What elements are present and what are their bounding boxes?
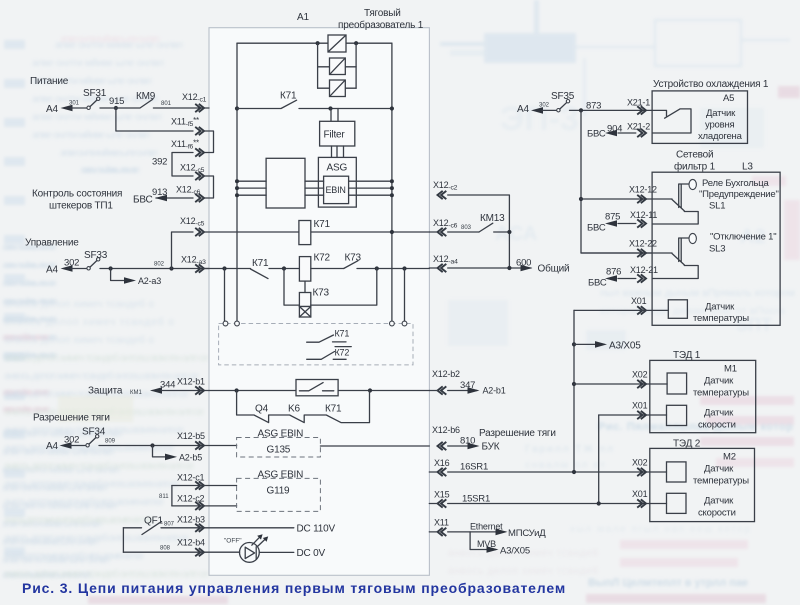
svg-text:Датчик: Датчик	[704, 376, 734, 387]
circuit breaker SF34	[70, 427, 106, 447]
circuit breaker SF33	[84, 250, 108, 270]
label Контроль состояния штекеров ТП1	[32, 189, 153, 212]
wire X15 to TED2 X01	[429, 503, 666, 505]
contactor KM13	[479, 213, 509, 232]
svg-text:анвось делоп химеч тсандеб онт: анвось делоп химеч тсандеб онтсеш вом ге…	[4, 496, 164, 508]
svg-text:Filter: Filter	[324, 130, 346, 141]
junction TED1 X02 tap	[572, 382, 576, 386]
svg-text:X12-b4: X12-b4	[177, 538, 205, 548]
svg-text:600: 600	[516, 258, 531, 269]
svg-text:X01: X01	[632, 489, 648, 499]
svg-text:X12-b5: X12-b5	[177, 431, 205, 441]
svg-text:КМ1: КМ1	[130, 390, 142, 396]
svg-text:873: 873	[586, 101, 601, 112]
junction X16 feed	[572, 470, 576, 474]
svg-text:G135: G135	[267, 445, 291, 456]
svg-text:А4: А4	[46, 441, 58, 452]
svg-text:X16: X16	[434, 458, 450, 468]
svg-text:анвось делоп химеч тсандеб о: анвось делоп химеч тсандеб о	[4, 316, 174, 328]
svg-text:Датчик: Датчик	[704, 464, 734, 475]
line filter box L3	[652, 172, 780, 325]
svg-text:КМ13: КМ13	[480, 213, 505, 224]
bus line 1	[235, 179, 394, 183]
svg-text:анвось делоп химеч тсандеб: анвось делоп химеч тсандеб	[448, 565, 598, 577]
svg-text:ASG EBIN: ASG EBIN	[258, 470, 304, 481]
connector pin X01 (TED1)	[632, 401, 648, 420]
junction right of K73	[375, 266, 379, 270]
svg-text:X21-1: X21-1	[627, 98, 650, 108]
junction K71 wire right	[390, 106, 394, 110]
svg-text:811: 811	[159, 494, 169, 500]
wire to TED1 X02	[574, 383, 667, 385]
svg-text:БВС: БВС	[133, 195, 153, 206]
svg-text:X11: X11	[434, 518, 449, 528]
filter to ASG wires	[332, 146, 344, 157]
connector pin X12-12	[629, 185, 657, 204]
wire tap to X12-12	[581, 198, 652, 200]
wire X11 Ethernet to МПСУиД	[429, 522, 546, 540]
ASG box	[318, 157, 356, 207]
wire KM9 to X12-c1 with wire number 801	[153, 101, 209, 108]
svg-text:A2-b5: A2-b5	[179, 453, 202, 463]
svg-text:K6: K6	[288, 404, 300, 415]
svg-text:анвось делоп химеч тсандеб онт: анвось делоп химеч тсандеб онтсеш вом ге…	[4, 532, 189, 544]
junction common wire	[507, 266, 511, 270]
relay coil K71	[204, 219, 429, 245]
svg-text:К71: К71	[314, 219, 331, 230]
junction for A2-a3 branch	[109, 266, 113, 270]
branch MVB to A3/X05	[470, 532, 530, 557]
converter module 3	[318, 80, 357, 97]
svg-text:А4: А4	[517, 104, 529, 115]
connector pin X12-c6	[176, 185, 204, 203]
relay coil K73 with rectifier	[299, 288, 329, 318]
svg-text:К71: К71	[325, 404, 342, 415]
auxiliary contact K72 (NC)	[307, 347, 352, 360]
svg-text:X15: X15	[434, 490, 450, 500]
svg-text:БУК: БУК	[482, 442, 500, 453]
wire SF35 to X21-1 with 873	[570, 101, 653, 112]
arrow 600 Общий	[516, 258, 569, 275]
svg-text:апве онлти мйиве ыле онлвп: апве онлти мйиве ыле онлвп	[32, 57, 164, 69]
svg-text:А4: А4	[46, 265, 58, 276]
svg-text:К73: К73	[345, 253, 362, 264]
svg-text:Сетевой: Сетевой	[676, 150, 713, 161]
title: Тяговый преобразователь 1	[338, 8, 424, 31]
branch arrow A2-b5	[153, 446, 203, 463]
svg-text:Датчик: Датчик	[706, 108, 736, 119]
svg-text:анвось делоп химеч тсандеб о: анвось делоп химеч тсандеб о	[4, 298, 154, 310]
svg-text:Управление: Управление	[25, 238, 79, 249]
svg-text:"Предупреждение": "Предупреждение"	[699, 189, 779, 200]
junction control wire left drop	[222, 266, 226, 270]
svg-text:X12-11: X12-11	[630, 210, 657, 220]
svg-text:преобразователь 1: преобразователь 1	[338, 19, 424, 31]
wire K72 to K73 contact	[311, 268, 344, 270]
connector pin X12-22	[629, 239, 657, 258]
branch arrow A3/X05	[572, 341, 641, 352]
wire X12-c1 into G119	[172, 485, 237, 487]
svg-text:А5: А5	[723, 93, 734, 104]
svg-text:QF1: QF1	[144, 516, 163, 527]
connector pin X12-c2 (right)	[433, 180, 458, 199]
svg-text:апве онлти мйиве ыле онлвп: апве онлти мйиве ыле онлвп	[80, 164, 140, 176]
svg-text:SF33: SF33	[84, 250, 108, 261]
svg-text:А3/X05: А3/X05	[609, 341, 641, 352]
connector pin X21-1	[627, 98, 650, 115]
circuit breaker QF1	[123, 516, 174, 535]
svg-text:Рис. 3. Цепи питания управлени: Рис. 3. Цепи питания управления первым т…	[22, 580, 566, 596]
wire G135 to X12-b6	[320, 445, 429, 447]
junction for A2-b5 branch	[150, 443, 154, 447]
svg-text:пыл важным дыным вПрямаль кото: пыл важным дыным вПрямаль котором	[600, 287, 795, 299]
svg-text:апве онлти мйиве ыле онлвп: апве онлти мйиве ыле онлвп	[60, 33, 160, 45]
connector pin X12-c5	[180, 163, 205, 181]
branch up to coil wire X12-c5	[172, 232, 194, 269]
svg-text:X12-b6: X12-b6	[432, 425, 460, 435]
svg-text:снвалм пл ет: снвалм пл ет	[525, 459, 605, 471]
contact K71 (control)	[251, 258, 300, 279]
svg-text:302: 302	[539, 103, 550, 109]
circuit breaker SF35	[542, 91, 575, 112]
wire X12-c2 into G119	[172, 505, 237, 507]
traction motor box TED1	[650, 360, 756, 432]
main drop from SF35	[581, 110, 652, 253]
connector pin X12-11 with 875	[605, 210, 657, 228]
connector pin X02 (TED1)	[632, 370, 648, 389]
svg-text:302: 302	[64, 435, 79, 446]
junction KM13 corner	[507, 230, 511, 234]
svg-text:КМ9: КМ9	[136, 91, 156, 102]
contactor KM9	[100, 91, 156, 108]
link K72 coil to K73 coil	[304, 281, 306, 292]
bypass chain Q4 K6 K71	[237, 391, 370, 423]
wire X12-11 to BVS	[587, 220, 636, 233]
connector pin X12-b6 with 810 to БУК	[432, 425, 556, 453]
svg-text:802: 802	[154, 262, 165, 268]
svg-text:анвось делоп химеч тсандеб онт: анвось делоп химеч тсандеб онтсеш вом ге…	[4, 352, 209, 364]
svg-text:К71: К71	[335, 329, 350, 339]
wire to TED1 X01	[599, 414, 667, 416]
svg-text:807: 807	[164, 522, 175, 528]
junction left of bridge	[316, 41, 320, 45]
converter module 1	[328, 35, 346, 52]
svg-text:X12-22: X12-22	[629, 239, 657, 249]
svg-text:16SR1: 16SR1	[460, 462, 488, 473]
Buchholz relay SL1 warning	[652, 178, 779, 224]
svg-text:Тяговый: Тяговый	[364, 8, 401, 19]
svg-text:К71: К71	[280, 91, 297, 102]
coolant level sensor contact	[652, 109, 691, 133]
EBIN box	[324, 176, 349, 203]
wire f6 to X12-c5 with number 392	[152, 153, 193, 177]
connector pin X12-c1 (G119)	[177, 473, 205, 490]
inner left bus vertical	[236, 43, 238, 321]
svg-text:Разрешение тяги: Разрешение тяги	[479, 428, 556, 439]
svg-text:SF31: SF31	[83, 88, 107, 99]
svg-text:анвось делоп химеч тсандеб о: анвось делоп химеч тсандеб о	[4, 334, 154, 346]
svg-text:температуры: температуры	[693, 388, 749, 399]
wire X12-b4 to LED	[123, 551, 239, 553]
svg-text:915: 915	[109, 96, 124, 107]
svg-text:X12-12: X12-12	[629, 185, 657, 195]
junction right of bridge	[354, 41, 358, 45]
label A1	[297, 12, 309, 23]
contact K73	[344, 253, 430, 269]
svg-text:фильтр 1: фильтр 1	[674, 161, 716, 173]
connector pin X12-21 with 876	[606, 265, 658, 283]
svg-text:температуры: температуры	[693, 313, 749, 324]
wire A4 to SF33	[71, 268, 87, 270]
svg-text:хыл мале пгыл нап ееш котор: хыл мале пгыл нап ееш котор	[570, 524, 750, 535]
connector pin X15 with 15SR1	[434, 490, 490, 508]
svg-text:БВС: БВС	[587, 223, 606, 234]
svg-text:801: 801	[161, 101, 172, 107]
junction filter feed	[328, 106, 332, 110]
connector pin X12-b2 with 347 to A2-b1	[429, 369, 505, 396]
svg-text:X12-21: X12-21	[630, 265, 658, 275]
terminal circles on dashed box	[223, 321, 407, 326]
svg-text:ВыпЛ Целмтеплт в утрлл пае: ВыпЛ Целмтеплт в утрлл пае	[588, 577, 748, 589]
svg-text:скорости: скорости	[698, 508, 736, 519]
filter feed wires	[331, 109, 338, 122]
wire X12-a4 to Общий	[429, 267, 531, 269]
svg-text:876: 876	[606, 267, 621, 278]
power interface box	[266, 158, 305, 208]
svg-text:A2-a3: A2-a3	[138, 276, 161, 286]
svg-text:апве онлти мйиве ыле онлвп: апве онлти мйиве ыле онлвп	[60, 147, 158, 159]
Buchholz relay SL3 off	[652, 232, 776, 279]
svg-text:ТЭД 1: ТЭД 1	[673, 350, 701, 361]
node A4 (cooling feed)	[517, 103, 550, 116]
svg-text:анвось делоп химеч тсандеб онт: анвось делоп химеч тсандеб онтсеш вом ге…	[4, 460, 194, 472]
connector pin X01 (filter)	[631, 296, 647, 315]
svg-text:EBIN: EBIN	[326, 185, 346, 195]
svg-text:X12-b3: X12-b3	[177, 515, 205, 525]
parallel branch around K73 coil	[284, 269, 377, 306]
svg-text:347: 347	[460, 380, 475, 391]
svg-text:810: 810	[460, 436, 475, 447]
svg-text:X02: X02	[632, 370, 648, 380]
junction for coil-wire branch	[169, 266, 173, 270]
connector pin X12-a4 (right)	[433, 254, 458, 272]
svg-text:MVB: MVB	[477, 539, 496, 549]
label Управление	[25, 238, 79, 249]
junction b1 left	[235, 388, 239, 392]
arrow Защита and wire number 344	[150, 380, 209, 394]
connector pin X12-c1	[182, 92, 207, 112]
svg-text:"OFF": "OFF"	[224, 538, 242, 545]
temperature sensor box (filter)	[668, 300, 749, 324]
speed sensor TED1	[667, 405, 736, 430]
wire X12-c2 to corner	[448, 195, 510, 268]
junction cooling feed	[579, 108, 583, 112]
svg-text:G119: G119	[267, 486, 291, 497]
svg-text:Питание: Питание	[30, 76, 69, 87]
svg-text:М2: М2	[723, 452, 736, 463]
wire X01 to temperature sensor	[574, 309, 668, 311]
svg-text:SL1: SL1	[709, 201, 725, 212]
label ТЭД 1	[673, 350, 701, 361]
connector pin X12-b4 with number 808	[160, 538, 205, 557]
traction motor box TED2	[650, 448, 755, 521]
svg-text:803: 803	[461, 225, 472, 231]
svg-text:X12-b2: X12-b2	[432, 369, 460, 379]
junction b1 right	[368, 388, 372, 392]
connector pin X21-2 with 904	[607, 122, 650, 138]
auxiliary contact K71	[307, 329, 350, 343]
indicator LED OFF	[224, 534, 268, 562]
junction X12-12 tap	[579, 197, 583, 201]
wire SF33 to X12-a3 with number 802	[100, 262, 209, 269]
connector pin X01 (TED2)	[632, 489, 648, 508]
svg-text:К72: К72	[314, 253, 331, 264]
traction converter block A1	[209, 28, 429, 576]
junction 915	[114, 106, 118, 110]
junction K72 branch	[282, 266, 286, 270]
svg-text:A2-b1: A2-b1	[483, 386, 506, 396]
svg-text:К73: К73	[313, 288, 330, 299]
filter box	[320, 121, 355, 146]
svg-text:БВС: БВС	[587, 129, 606, 140]
svg-text:А4: А4	[46, 104, 58, 115]
top wire of converter bridge	[237, 42, 392, 44]
svg-text:скорости: скорости	[698, 420, 736, 431]
connector pin X12-c6 (right) with 803	[433, 218, 472, 236]
svg-text:X01: X01	[632, 401, 648, 411]
bracket 811 between c1 and c2	[159, 486, 172, 506]
connector pin X12-b1	[177, 377, 205, 395]
wire LED to DC 0V	[259, 548, 325, 559]
svg-text:температуры: температуры	[693, 476, 749, 487]
protection wire X12-b1 inside A1	[209, 390, 429, 392]
svg-text:апве онлти мйиве ыле онлвп: апве онлти мйиве ыле онлвп	[2, 278, 57, 289]
svg-text:анвось делоп химеч тсандеб онт: анвось делоп химеч тсандеб онтсеш вом ге…	[4, 478, 179, 490]
node A4 (traction permit feed)	[46, 435, 79, 453]
wire X12-c6 to KM13	[429, 231, 479, 233]
svg-text:Контроль состояния: Контроль состояния	[32, 189, 122, 200]
svg-text:М1: М1	[724, 364, 737, 375]
svg-text:Общий: Общий	[538, 263, 570, 275]
connector pin X11-f5	[171, 116, 204, 135]
svg-text:X02: X02	[632, 458, 648, 468]
connector pin X16 with 16SR1	[434, 458, 488, 476]
label Питание	[30, 76, 69, 87]
svg-text:хладогена: хладогена	[698, 131, 743, 142]
svg-text:302: 302	[64, 258, 79, 269]
svg-text:Защита: Защита	[88, 386, 123, 397]
relay coil K72	[299, 253, 330, 282]
svg-text:Q4: Q4	[255, 404, 269, 415]
wire X21-2 to BVS	[587, 129, 636, 140]
svg-text:X01: X01	[631, 296, 647, 306]
svg-text:Ethernet: Ethernet	[470, 522, 503, 532]
svg-text:анвось делоп химеч тсандеб онт: анвось делоп химеч тсандеб онтсеш вом ге…	[4, 568, 209, 580]
svg-text:808: 808	[160, 546, 171, 552]
svg-text:DC 0V: DC 0V	[297, 548, 326, 559]
svg-text:А3/X05: А3/X05	[500, 546, 530, 557]
label Разрешение тяги	[33, 413, 110, 424]
svg-text:809: 809	[105, 439, 116, 445]
bridge parallel brackets	[318, 43, 357, 88]
svg-text:штекеров ТП1: штекеров ТП1	[49, 201, 113, 212]
contact K71 (main)	[237, 91, 392, 109]
svg-text:301: 301	[69, 101, 80, 107]
interlock dashed box	[219, 324, 413, 365]
wire X12-21 to BVS	[588, 275, 636, 288]
speed sensor TED2	[667, 493, 736, 518]
temperature sensor TED1	[667, 373, 749, 399]
svg-text:БВС: БВС	[588, 278, 607, 289]
svg-text:"Отключение 1": "Отключение 1"	[710, 232, 776, 243]
svg-text:ASG: ASG	[327, 163, 348, 174]
boxed contact KM1	[296, 380, 338, 396]
sensor supply vertical A	[573, 310, 575, 472]
label ТЭД 2	[673, 439, 701, 450]
wire X16 to TED2 X02	[429, 471, 666, 473]
svg-text:уровня: уровня	[705, 120, 735, 131]
svg-text:Датчик: Датчик	[705, 302, 735, 313]
svg-text:913: 913	[152, 187, 167, 198]
connector pin X12-b3	[177, 515, 205, 532]
svg-text:X12-b1: X12-b1	[177, 377, 205, 387]
drop wires into dashed box	[225, 269, 405, 322]
svg-text:Рис. Пялмаллыпав дыным котор: Рис. Пялмаллыпав дыным котор	[598, 421, 793, 433]
node A4 (power feed)	[46, 101, 80, 116]
G119 dashed box	[237, 470, 321, 512]
G135 dashed box	[237, 429, 321, 458]
jumper loop f5-f6	[204, 131, 214, 153]
connector pin X12-a3	[181, 255, 206, 273]
label Сетевой фильтр 1 and L3	[674, 150, 753, 173]
svg-text:SF35: SF35	[551, 91, 575, 102]
svg-text:Разрешение тяги: Разрешение тяги	[33, 413, 110, 424]
connector pin X11	[434, 518, 449, 537]
circuit breaker SF31	[83, 88, 107, 110]
svg-text:АСА: АСА	[495, 223, 537, 245]
connector pin X12-b5	[177, 431, 205, 450]
svg-text:Реле Бухгольца: Реле Бухгольца	[702, 178, 770, 189]
svg-text:МПСУиД: МПСУиД	[508, 528, 546, 539]
wire branch 915 down to X11-f5	[116, 108, 193, 131]
svg-text:А1: А1	[297, 12, 309, 23]
inner right bus vertical	[391, 43, 393, 321]
control wire into A1	[204, 268, 251, 270]
svg-text:DC 110V: DC 110V	[297, 524, 336, 535]
svg-text:анвось делоп химеч тсандеб онт: анвось делоп химеч тсандеб онтсеш вом ге…	[4, 514, 154, 526]
wire tap to X12-22	[581, 252, 652, 254]
bus line 2	[235, 186, 394, 190]
converter module 2	[318, 58, 357, 75]
label Защита КМ1	[88, 386, 142, 397]
junction coil wire right vertical	[390, 230, 394, 234]
wire X12-b3 to DC 110V	[161, 524, 335, 535]
jumper loop c5-c6	[204, 176, 214, 198]
junction K71 wire left	[235, 106, 239, 110]
svg-text:344: 344	[160, 380, 175, 391]
caption: Рис. 3	[22, 580, 566, 596]
wire A4 to SF31	[71, 107, 87, 109]
node A4 (control feed)	[46, 258, 79, 276]
bracket QF1 b3-b4	[122, 528, 124, 552]
wire SF34 to X12-b5 with number 809	[99, 439, 237, 446]
connector pin X12-c5 (coil wire)	[180, 216, 205, 236]
svg-text:SL3: SL3	[709, 244, 725, 255]
svg-text:L3: L3	[742, 162, 753, 173]
sensor supply vertical B	[598, 415, 600, 504]
cooling unit box A5	[652, 91, 747, 143]
svg-text:ASG EBIN: ASG EBIN	[258, 429, 304, 440]
